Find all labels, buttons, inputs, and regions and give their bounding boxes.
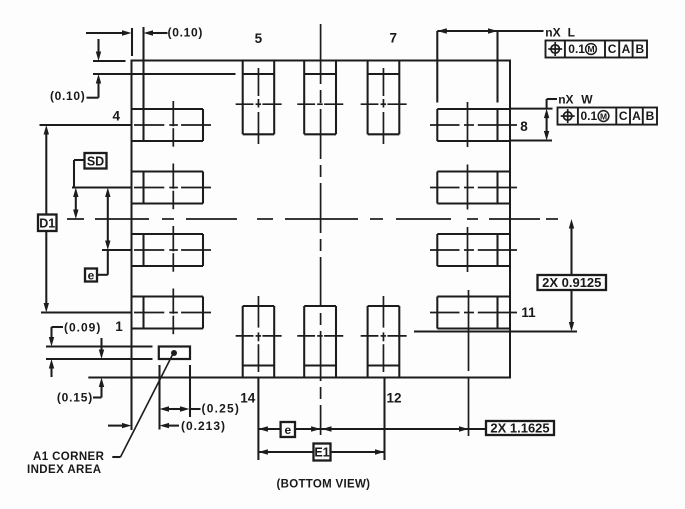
svg-text:5: 5 xyxy=(255,31,263,46)
svg-text:1: 1 xyxy=(115,319,123,334)
svg-text:(0.15): (0.15) xyxy=(57,391,93,405)
svg-text:11: 11 xyxy=(521,305,536,320)
dimension (0.25): A1 index area width xyxy=(158,365,160,430)
position symbol xyxy=(551,45,559,53)
GD&T feature control frame for nX L xyxy=(546,41,648,58)
svg-text:M: M xyxy=(587,44,594,54)
svg-text:14: 14 xyxy=(240,391,256,406)
A1 index area extension lines xyxy=(46,345,153,347)
svg-text:(0.10): (0.10) xyxy=(50,89,86,103)
svg-text:e: e xyxy=(88,268,95,282)
dimension (0.10) top: package edge to pad offset xyxy=(93,60,126,62)
svg-text:E1: E1 xyxy=(314,446,329,460)
dimension e: pad pitch left side xyxy=(102,249,132,251)
pad pin 14 (bottom side) xyxy=(242,306,244,378)
label e (boxed, bottom) xyxy=(281,422,295,437)
svg-text:4: 4 xyxy=(113,109,121,124)
dimension nX W: land width xyxy=(510,108,553,110)
dimension E1: outer land centers bottom side xyxy=(383,378,385,460)
svg-text:B: B xyxy=(646,109,655,123)
pad pin 7 (top side) xyxy=(367,61,369,135)
pad pin 5 (top side) xyxy=(242,61,244,135)
svg-text:A: A xyxy=(622,42,631,56)
dimension (0.213): package edge to A1 area xyxy=(130,378,132,430)
svg-text:0.1: 0.1 xyxy=(581,109,598,123)
svg-text:L: L xyxy=(568,25,575,39)
A1 corner index area rectangle xyxy=(159,347,190,360)
svg-text:SD: SD xyxy=(87,154,104,168)
svg-text:D1: D1 xyxy=(39,216,55,230)
svg-text:INDEX AREA: INDEX AREA xyxy=(27,464,102,476)
top pads center marks xyxy=(236,103,254,105)
svg-text:2X 0.9125: 2X 0.9125 xyxy=(542,275,601,290)
pad pin 3 (left side) xyxy=(132,170,204,172)
pad pin 6 (top side) xyxy=(303,61,305,135)
pad pin 1 (left side) xyxy=(132,295,204,297)
M modifier (circled) xyxy=(598,111,609,122)
svg-text:(0.10): (0.10) xyxy=(168,26,204,40)
label 2X 0.9125 (boxed) xyxy=(538,275,607,290)
pad pin 13 (bottom side) xyxy=(303,306,305,378)
dimension (0.10) left: package edge to pad offset xyxy=(97,39,99,52)
M modifier (circled) xyxy=(586,44,597,55)
svg-text:B: B xyxy=(635,42,644,56)
GD&T feature control frame for nX W xyxy=(558,108,658,125)
label D1 (boxed) xyxy=(38,215,57,232)
label SD (boxed) xyxy=(85,153,107,169)
A1 index dot xyxy=(171,350,177,356)
package bottom edge extension (left) xyxy=(88,376,131,378)
dimension (0.09): A1 index area height xyxy=(52,326,64,328)
svg-text:A1 CORNER: A1 CORNER xyxy=(33,451,105,463)
vertical package centerline xyxy=(320,24,322,84)
pad pin 11 (right side) xyxy=(437,295,510,297)
top edge offset line (0.10) across left region xyxy=(93,73,236,75)
label e (boxed, left) xyxy=(85,269,97,282)
svg-text:(BOTTOM VIEW): (BOTTOM VIEW) xyxy=(277,479,371,491)
left edge offset line (0.10), also extension for top dimension xyxy=(142,27,144,141)
svg-text:nX: nX xyxy=(545,25,560,39)
dimension (0.15): A1 area to package edge xyxy=(100,338,102,350)
svg-text:2X 1.1625: 2X 1.1625 xyxy=(490,421,549,436)
dimension 2X 0.9125: centerline to pad outer edge xyxy=(414,330,577,332)
label 2X 1.1625 (boxed) xyxy=(486,421,554,435)
svg-text:e: e xyxy=(284,423,291,437)
svg-text:M: M xyxy=(600,111,607,121)
svg-text:(0.213): (0.213) xyxy=(181,419,226,433)
svg-text:12: 12 xyxy=(386,391,401,406)
horizontal package centerline xyxy=(67,218,84,220)
svg-text:8: 8 xyxy=(520,119,528,134)
dimension e: pad pitch bottom side xyxy=(257,378,259,460)
pad pin 9 (right side) xyxy=(437,170,510,172)
position symbol xyxy=(564,112,572,120)
svg-text:W: W xyxy=(581,92,593,106)
pad pin 4 (left side) xyxy=(132,108,204,110)
dimension nX L: land length xyxy=(436,31,438,103)
svg-text:nX: nX xyxy=(558,92,573,106)
pad pin 10 (right side) xyxy=(437,233,510,235)
svg-text:(0.25): (0.25) xyxy=(202,402,241,416)
pad pin 8 (right side) xyxy=(437,108,510,110)
A1 leader diagonal xyxy=(112,456,120,458)
bottom pads center marks xyxy=(236,335,254,337)
package body outline (bottom view) xyxy=(132,61,511,378)
svg-text:0.1: 0.1 xyxy=(568,42,585,56)
pad pin 12 (bottom side) xyxy=(367,306,369,378)
pin 11 pad center tick merged with 2X 1.1625 extension xyxy=(468,290,470,371)
left pads center marks xyxy=(134,124,164,126)
svg-text:C: C xyxy=(608,42,617,56)
svg-text:(0.09): (0.09) xyxy=(64,321,101,335)
svg-text:C: C xyxy=(619,109,628,123)
svg-text:7: 7 xyxy=(389,31,397,46)
dimension D1: outer land centers left side xyxy=(40,124,132,126)
label E1 (boxed) xyxy=(314,444,331,461)
pad pin 2 (left side) xyxy=(132,233,204,235)
right pads center marks xyxy=(430,124,460,126)
svg-text:A: A xyxy=(632,109,641,123)
